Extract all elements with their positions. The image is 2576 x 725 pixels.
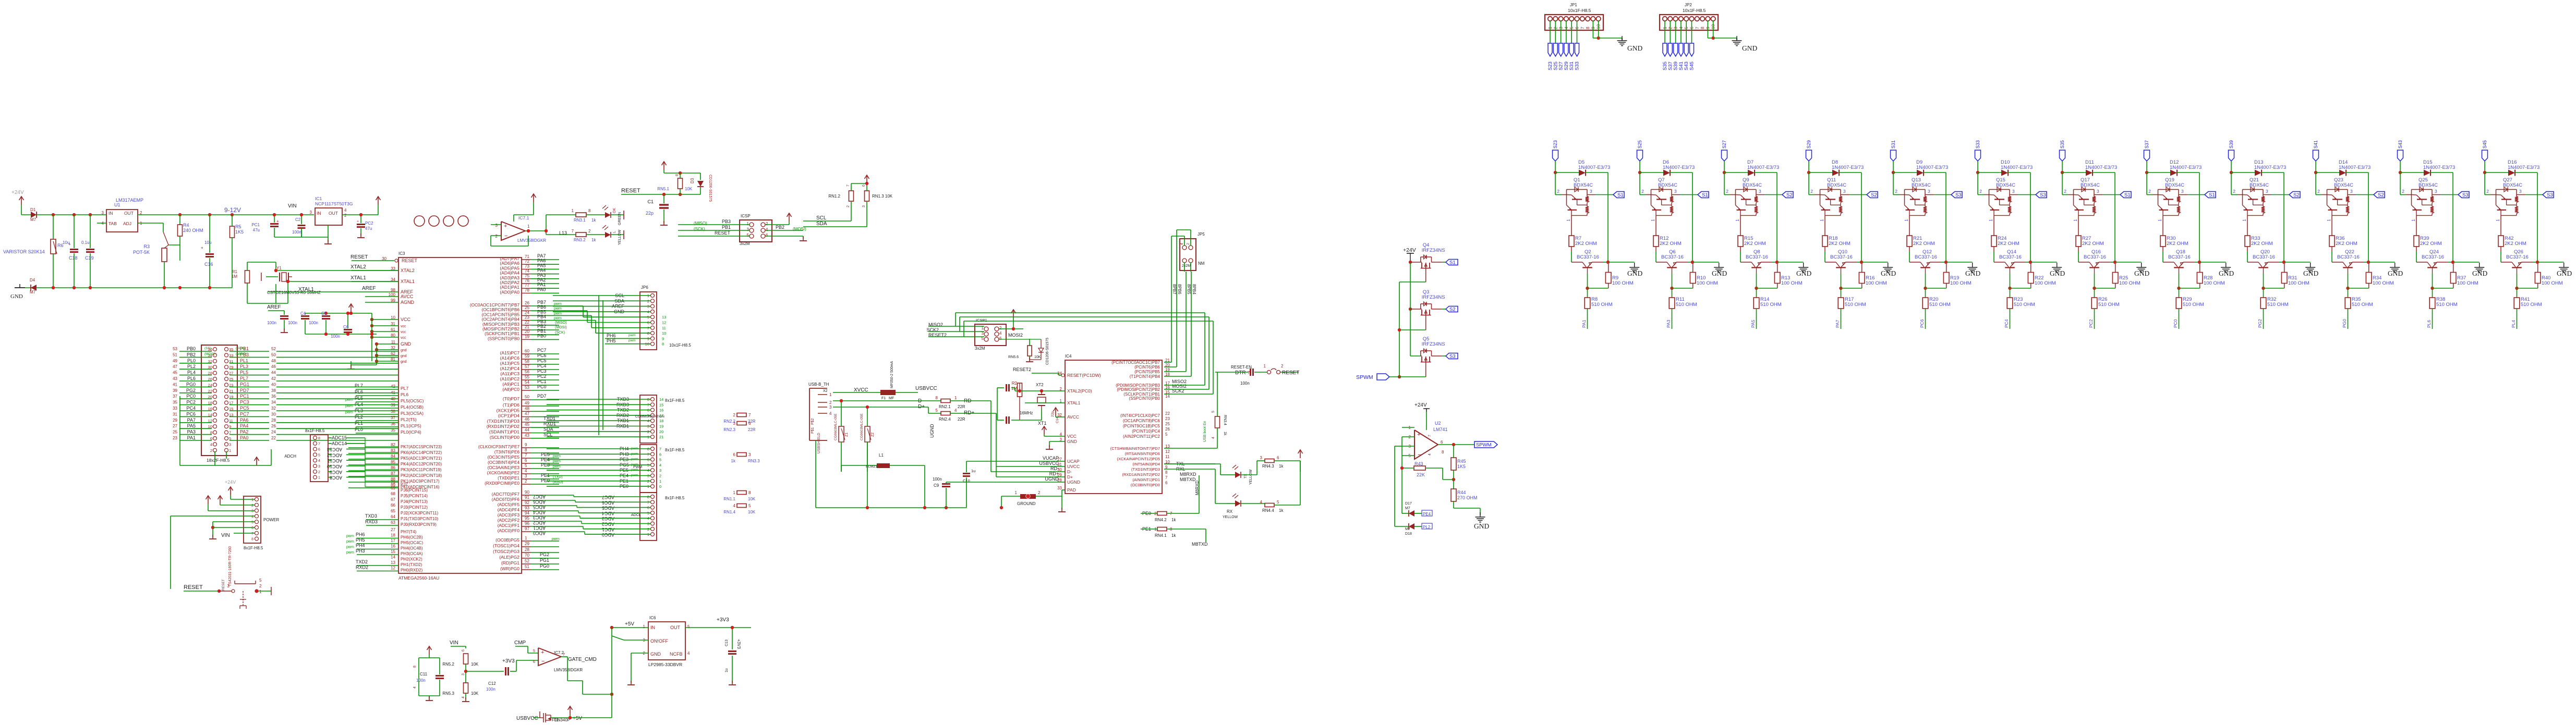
svg-text:GND: GND bbox=[1881, 269, 1896, 277]
svg-text:(RTSAIN5INT6)PD6: (RTSAIN5INT6)PD6 bbox=[1125, 451, 1160, 456]
svg-text:(A13)PC5: (A13)PC5 bbox=[500, 361, 520, 366]
svg-text:PA0: PA0 bbox=[537, 287, 546, 292]
svg-text:1N4007-E3/73: 1N4007-E3/73 bbox=[2170, 165, 2202, 170]
svg-text:YELLOW: YELLOW bbox=[618, 229, 622, 245]
svg-text:NCFB: NCFB bbox=[670, 652, 683, 657]
svg-text:S3: S3 bbox=[1955, 192, 1962, 198]
svg-text:(SCK): (SCK) bbox=[236, 347, 245, 350]
svg-text:(OC3BINT4)PE4: (OC3BINT4)PE4 bbox=[488, 460, 519, 465]
svg-text:4: 4 bbox=[766, 227, 768, 232]
svg-text:7: 7 bbox=[1695, 27, 1700, 29]
svg-text:31: 31 bbox=[391, 322, 395, 326]
svg-text:POT-5K: POT-5K bbox=[133, 250, 150, 255]
svg-text:0: 0 bbox=[659, 484, 661, 489]
svg-text:PA5: PA5 bbox=[187, 423, 196, 428]
svg-text:ADCL: ADCL bbox=[631, 513, 641, 517]
svg-text:64: 64 bbox=[391, 514, 395, 519]
svg-text:5: 5 bbox=[748, 503, 751, 508]
svg-text:D-: D- bbox=[1067, 469, 1072, 474]
svg-text:PC1: PC1 bbox=[537, 379, 547, 384]
svg-text:MF050-2 500mA: MF050-2 500mA bbox=[890, 361, 894, 388]
svg-text:7: 7 bbox=[251, 532, 253, 536]
svg-text:R44: R44 bbox=[1457, 490, 1466, 495]
svg-text:pwm: pwm bbox=[553, 460, 561, 463]
svg-text:S1: S1 bbox=[2209, 192, 2215, 198]
svg-text:2: 2 bbox=[766, 222, 768, 226]
svg-text:BDX54C: BDX54C bbox=[1912, 182, 1931, 188]
svg-text:8x1F-H8.5: 8x1F-H8.5 bbox=[665, 398, 685, 403]
svg-text:RN1.3 10K: RN1.3 10K bbox=[872, 194, 893, 199]
svg-text:8: 8 bbox=[647, 331, 649, 336]
svg-text:(SCKPCINT1)PB1: (SCKPCINT1)PB1 bbox=[485, 331, 519, 336]
svg-text:15: 15 bbox=[659, 402, 663, 407]
svg-text:94: 94 bbox=[525, 511, 529, 515]
svg-text:(A12)PC4: (A12)PC4 bbox=[500, 366, 520, 371]
svg-text:PC1: PC1 bbox=[240, 394, 249, 399]
svg-text:R2: R2 bbox=[1012, 381, 1018, 386]
svg-text:PG2: PG2 bbox=[186, 388, 196, 393]
svg-text:ICSP1: ICSP1 bbox=[976, 318, 987, 323]
svg-text:77: 77 bbox=[525, 283, 529, 288]
svg-text:S3: S3 bbox=[1449, 354, 1456, 360]
svg-text:PH0(RXD2): PH0(RXD2) bbox=[401, 568, 423, 573]
svg-text:JP1: JP1 bbox=[1570, 3, 1577, 7]
svg-text:RESET: RESET bbox=[1282, 370, 1299, 376]
svg-text:VIN: VIN bbox=[288, 203, 297, 209]
svg-text:(TXD1INT3)PD3: (TXD1INT3)PD3 bbox=[487, 419, 520, 424]
svg-text:PH6(OC2B): PH6(OC2B) bbox=[401, 535, 423, 540]
svg-text:2: 2 bbox=[1810, 189, 1813, 194]
svg-text:3: 3 bbox=[462, 673, 465, 675]
svg-text:(TOSC2)PG3: (TOSC2)PG3 bbox=[493, 549, 519, 554]
svg-text:8: 8 bbox=[936, 396, 938, 400]
svg-text:PA5: PA5 bbox=[1750, 320, 1756, 328]
svg-text:1N4007-E3/73: 1N4007-E3/73 bbox=[1747, 165, 1779, 170]
svg-text:TAB: TAB bbox=[108, 221, 117, 226]
svg-text:2K2 OHM: 2K2 OHM bbox=[1660, 241, 1682, 247]
svg-text:UCAP: UCAP bbox=[1067, 459, 1080, 464]
svg-text:20: 20 bbox=[525, 329, 529, 334]
svg-text:S1: S1 bbox=[2124, 192, 2131, 198]
svg-text:1k: 1k bbox=[591, 238, 596, 242]
svg-text:PA6: PA6 bbox=[240, 417, 248, 423]
svg-text:+: + bbox=[357, 220, 359, 224]
svg-text:6: 6 bbox=[533, 659, 535, 664]
svg-text:(AIN0INT1)PD1: (AIN0INT1)PD1 bbox=[1132, 477, 1160, 482]
svg-text:CG0603MLC-05E: CG0603MLC-05E bbox=[834, 413, 838, 440]
svg-text:CG0603MLC-05E: CG0603MLC-05E bbox=[860, 413, 864, 440]
svg-text:RESET: RESET bbox=[350, 254, 368, 260]
svg-text:ADC4: ADC4 bbox=[602, 511, 614, 516]
svg-text:8: 8 bbox=[318, 437, 320, 440]
svg-text:100 OHM: 100 OHM bbox=[2457, 280, 2478, 286]
svg-text:100n: 100n bbox=[267, 321, 276, 325]
svg-text:RN5.3: RN5.3 bbox=[442, 691, 454, 696]
svg-text:3: 3 bbox=[659, 468, 661, 473]
svg-text:PC2: PC2 bbox=[365, 221, 373, 226]
svg-text:510 OHM: 510 OHM bbox=[1845, 302, 1866, 308]
svg-text:BC337-16: BC337-16 bbox=[2506, 254, 2529, 260]
svg-text:(A10)PC2: (A10)PC2 bbox=[500, 376, 520, 382]
svg-text:1k: 1k bbox=[1171, 533, 1176, 538]
svg-text:270 OHM: 270 OHM bbox=[1457, 495, 1478, 500]
svg-text:C13: C13 bbox=[725, 640, 729, 646]
svg-text:XT1: XT1 bbox=[1038, 421, 1047, 426]
svg-text:FDN340P: FDN340P bbox=[552, 718, 570, 722]
svg-text:1k: 1k bbox=[591, 218, 596, 223]
svg-text:2: 2 bbox=[659, 474, 661, 478]
svg-text:2: 2 bbox=[318, 471, 320, 474]
svg-text:D17: D17 bbox=[1405, 502, 1412, 506]
svg-text:1: 1 bbox=[527, 224, 530, 229]
svg-text:IRFZ34NS: IRFZ34NS bbox=[1422, 341, 1445, 347]
svg-text:(PCINT5)PB5: (PCINT5)PB5 bbox=[1134, 370, 1160, 374]
svg-text:36: 36 bbox=[271, 394, 276, 399]
svg-text:P$1: P$1 bbox=[811, 427, 815, 434]
svg-text:(MISO): (MISO) bbox=[555, 321, 567, 325]
svg-text:52: 52 bbox=[271, 347, 276, 351]
svg-text:ADC7: ADC7 bbox=[533, 494, 546, 499]
svg-text:510 OHM: 510 OHM bbox=[2183, 302, 2204, 308]
svg-text:(MOSIPCINT2)PB2: (MOSIPCINT2)PB2 bbox=[482, 327, 519, 331]
svg-text:BC337-16: BC337-16 bbox=[1830, 254, 1853, 260]
svg-text:240 OHM: 240 OHM bbox=[183, 228, 203, 233]
svg-text:2: 2 bbox=[344, 213, 347, 218]
svg-text:PG0: PG0 bbox=[2342, 319, 2347, 328]
svg-text:PB1: PB1 bbox=[722, 225, 731, 230]
svg-text:1k: 1k bbox=[731, 459, 736, 463]
svg-text:15: 15 bbox=[391, 549, 395, 554]
svg-text:39: 39 bbox=[391, 403, 395, 408]
svg-text:S1: S1 bbox=[1449, 260, 1456, 266]
svg-text:PD7: PD7 bbox=[240, 388, 249, 393]
svg-text:PC4: PC4 bbox=[2004, 319, 2009, 328]
svg-text:PL5: PL5 bbox=[240, 370, 248, 375]
svg-text:10x1F-H8.5: 10x1F-H8.5 bbox=[1568, 8, 1591, 13]
svg-text:60: 60 bbox=[525, 349, 529, 353]
svg-text:2: 2 bbox=[733, 413, 736, 417]
svg-text:S33: S33 bbox=[1575, 62, 1580, 70]
svg-text:+5V: +5V bbox=[625, 621, 634, 627]
svg-text:2: 2 bbox=[2148, 189, 2151, 194]
svg-text:1: 1 bbox=[1015, 490, 1018, 495]
svg-text:ATMEGA2560-16AU: ATMEGA2560-16AU bbox=[398, 575, 439, 581]
svg-text:pwm: pwm bbox=[628, 334, 636, 337]
svg-text:D18: D18 bbox=[1405, 532, 1412, 536]
svg-text:2K2 OHM: 2K2 OHM bbox=[1744, 241, 1766, 247]
svg-text:PH6: PH6 bbox=[607, 333, 616, 338]
svg-text:3: 3 bbox=[229, 442, 231, 447]
svg-text:9-12V: 9-12V bbox=[224, 206, 241, 214]
svg-text:M7: M7 bbox=[1405, 527, 1410, 531]
svg-text:53: 53 bbox=[525, 385, 529, 390]
svg-text:100 OHM: 100 OHM bbox=[2542, 280, 2563, 286]
svg-text:C18: C18 bbox=[69, 255, 78, 261]
svg-text:5: 5 bbox=[747, 233, 749, 238]
svg-text:ADC5: ADC5 bbox=[602, 506, 614, 511]
svg-text:PJ7: PJ7 bbox=[401, 482, 408, 487]
svg-text:510 OHM: 510 OHM bbox=[2521, 302, 2542, 308]
svg-text:37: 37 bbox=[173, 394, 177, 399]
svg-text:PWM: PWM bbox=[633, 465, 642, 469]
svg-text:PH4: PH4 bbox=[356, 543, 365, 548]
svg-text:R3: R3 bbox=[143, 244, 150, 249]
svg-text:XTAL1: XTAL1 bbox=[401, 279, 415, 284]
svg-text:(ADC4)PF4: (ADC4)PF4 bbox=[498, 508, 520, 512]
svg-text:510 OHM: 510 OHM bbox=[2267, 302, 2289, 308]
svg-text:M7: M7 bbox=[30, 217, 37, 222]
svg-text:80: 80 bbox=[391, 333, 395, 338]
svg-text:BC337-16: BC337-16 bbox=[1999, 254, 2022, 260]
svg-text:BDX54C: BDX54C bbox=[1658, 182, 1677, 188]
svg-text:C5: C5 bbox=[321, 311, 327, 316]
svg-text:6: 6 bbox=[318, 448, 320, 452]
svg-text:RN5.2: RN5.2 bbox=[442, 662, 454, 667]
svg-text:100 OHM: 100 OHM bbox=[1781, 280, 1803, 286]
svg-text:PC0: PC0 bbox=[537, 384, 547, 389]
svg-text:PK3(ADC11PCINT19): PK3(ADC11PCINT19) bbox=[401, 468, 442, 472]
svg-text:PA1: PA1 bbox=[187, 435, 196, 440]
svg-text:1: 1 bbox=[659, 479, 661, 484]
svg-text:33: 33 bbox=[173, 406, 177, 411]
svg-text:VIN: VIN bbox=[450, 640, 458, 646]
svg-text:vcc: vcc bbox=[401, 330, 406, 334]
svg-text:(SS): (SS) bbox=[204, 347, 211, 350]
svg-text:2x2M: 2x2M bbox=[1182, 264, 1191, 268]
svg-text:VCC: VCC bbox=[401, 317, 411, 322]
svg-text:1M: 1M bbox=[232, 274, 237, 279]
svg-text:−: − bbox=[504, 233, 507, 239]
svg-text:100n: 100n bbox=[486, 687, 495, 692]
svg-text:RXD2: RXD2 bbox=[356, 565, 368, 570]
svg-text:97: 97 bbox=[525, 526, 529, 531]
svg-text:(MOSI): (MOSI) bbox=[793, 227, 806, 231]
svg-text:(OC3CINT5)PE5: (OC3CINT5)PE5 bbox=[488, 455, 520, 460]
svg-text:NM: NM bbox=[1198, 261, 1205, 266]
svg-text:RESET: RESET bbox=[715, 230, 731, 236]
svg-text:33: 33 bbox=[1057, 486, 1062, 490]
svg-text:4: 4 bbox=[954, 408, 957, 413]
svg-text:510 OHM: 510 OHM bbox=[1929, 302, 1951, 308]
svg-text:46: 46 bbox=[271, 364, 276, 369]
svg-text:PB0: PB0 bbox=[187, 346, 196, 351]
svg-text:28: 28 bbox=[525, 547, 529, 552]
svg-text:pwm: pwm bbox=[346, 551, 354, 555]
svg-text:BDX54C: BDX54C bbox=[2503, 182, 2522, 188]
svg-text:IN: IN bbox=[317, 211, 321, 216]
svg-text:LMV358IDGKR: LMV358IDGKR bbox=[554, 668, 583, 672]
svg-text:100 OHM: 100 OHM bbox=[1950, 280, 1972, 286]
svg-text:0.1u: 0.1u bbox=[81, 240, 90, 245]
svg-text:GND: GND bbox=[2472, 269, 2487, 277]
svg-text:1: 1 bbox=[1988, 219, 1993, 222]
svg-text:68: 68 bbox=[391, 491, 395, 496]
svg-text:BDX54C: BDX54C bbox=[1996, 182, 2015, 188]
svg-text:PC7: PC7 bbox=[240, 411, 249, 416]
svg-text:+5V: +5V bbox=[573, 716, 582, 721]
svg-text:6: 6 bbox=[999, 336, 1002, 341]
svg-text:22p: 22p bbox=[646, 211, 654, 216]
svg-text:USB boot En: USB boot En bbox=[1203, 421, 1207, 442]
svg-text:USBVCC: USBVCC bbox=[915, 386, 937, 391]
svg-text:1N4007-E3/73: 1N4007-E3/73 bbox=[1578, 165, 1610, 170]
svg-text:2: 2 bbox=[2064, 189, 2066, 194]
svg-text:8PB7: 8PB7 bbox=[1172, 284, 1177, 294]
svg-text:1: 1 bbox=[2495, 219, 2500, 222]
svg-text:Z1: Z1 bbox=[845, 433, 849, 437]
svg-text:1u: 1u bbox=[971, 469, 975, 473]
svg-text:PA0: PA0 bbox=[240, 435, 248, 440]
svg-text:(SCLINT0)PD0: (SCLINT0)PD0 bbox=[490, 435, 519, 440]
svg-text:5: 5 bbox=[647, 315, 649, 320]
svg-text:50: 50 bbox=[525, 395, 529, 399]
svg-text:4: 4 bbox=[413, 686, 417, 689]
svg-text:5: 5 bbox=[259, 578, 262, 583]
svg-text:GND: GND bbox=[2050, 269, 2065, 277]
svg-text:25: 25 bbox=[525, 305, 529, 310]
svg-text:AVCC: AVCC bbox=[1067, 414, 1079, 420]
svg-text:BC337-16: BC337-16 bbox=[1746, 254, 1768, 260]
svg-text:26: 26 bbox=[1165, 427, 1170, 432]
svg-text:C14: C14 bbox=[1056, 417, 1059, 423]
svg-text:4: 4 bbox=[659, 463, 661, 468]
svg-text:1k: 1k bbox=[1171, 518, 1176, 522]
svg-text:pwm: pwm bbox=[628, 339, 636, 342]
svg-text:1N4007-E3/73: 1N4007-E3/73 bbox=[2254, 165, 2286, 170]
svg-text:SDA: SDA bbox=[816, 221, 827, 227]
svg-text:1N4007-E3/73: 1N4007-E3/73 bbox=[1663, 165, 1695, 170]
svg-text:PL0: PL0 bbox=[187, 358, 196, 363]
svg-text:7: 7 bbox=[647, 326, 649, 330]
svg-text:1k: 1k bbox=[1279, 508, 1284, 513]
svg-text:ADC0: ADC0 bbox=[602, 532, 614, 537]
svg-text:(ADC6TD)PF6: (ADC6TD)PF6 bbox=[492, 497, 520, 502]
svg-text:(MOSI): (MOSI) bbox=[204, 352, 215, 356]
svg-text:66: 66 bbox=[391, 503, 395, 508]
svg-text:16: 16 bbox=[391, 544, 395, 549]
svg-text:(ADC5)PF5: (ADC5)PF5 bbox=[498, 502, 520, 507]
svg-text:22: 22 bbox=[271, 436, 276, 440]
svg-text:TXD2: TXD2 bbox=[356, 559, 368, 564]
svg-text:C11: C11 bbox=[420, 672, 428, 677]
svg-text:(RXD1INT2)PD2: (RXD1INT2)PD2 bbox=[487, 424, 520, 429]
svg-text:96: 96 bbox=[525, 521, 529, 526]
svg-text:+3V3: +3V3 bbox=[736, 639, 741, 649]
svg-text:ADC1: ADC1 bbox=[602, 527, 614, 532]
svg-text:45: 45 bbox=[525, 422, 529, 427]
svg-text:XT2: XT2 bbox=[1036, 383, 1044, 387]
svg-text:3: 3 bbox=[251, 510, 253, 513]
svg-text:ADC3: ADC3 bbox=[533, 515, 546, 520]
svg-text:S39: S39 bbox=[2229, 140, 2234, 149]
svg-text:ADC6: ADC6 bbox=[533, 499, 546, 505]
svg-text:8: 8 bbox=[748, 490, 751, 495]
svg-text:GND: GND bbox=[2557, 269, 2572, 277]
svg-text:(TOSC1)PG4: (TOSC1)PG4 bbox=[493, 543, 519, 548]
svg-text:(CLKOICP3INT7)PE7: (CLKOICP3INT7)PE7 bbox=[478, 445, 520, 449]
svg-text:PA3: PA3 bbox=[187, 429, 196, 435]
svg-text:PL4(OC5B): PL4(OC5B) bbox=[401, 404, 424, 410]
svg-text:13: 13 bbox=[662, 315, 666, 320]
svg-text:2: 2 bbox=[588, 229, 591, 234]
svg-text:(PCINT6)PB6: (PCINT6)PB6 bbox=[1134, 365, 1160, 370]
svg-text:8: 8 bbox=[1585, 27, 1590, 29]
svg-text:4: 4 bbox=[318, 459, 320, 463]
svg-text:C19: C19 bbox=[85, 255, 94, 261]
svg-text:32: 32 bbox=[391, 346, 395, 350]
svg-text:510 OHM: 510 OHM bbox=[2014, 302, 2035, 308]
svg-text:(OC1APCINT8)PC6: (OC1APCINT8)PC6 bbox=[1123, 419, 1160, 423]
svg-text:74: 74 bbox=[525, 269, 529, 274]
svg-text:18: 18 bbox=[659, 419, 663, 423]
svg-text:pwm: pwm bbox=[553, 465, 561, 469]
svg-text:R5: R5 bbox=[235, 224, 241, 229]
svg-text:3: 3 bbox=[733, 421, 736, 426]
svg-text:M7: M7 bbox=[1405, 507, 1410, 510]
svg-text:(OC3AAIN1)PE3: (OC3AAIN1)PE3 bbox=[488, 465, 520, 470]
svg-text:8: 8 bbox=[413, 666, 417, 668]
svg-text:1: 1 bbox=[1650, 219, 1655, 222]
svg-text:2: 2 bbox=[1726, 189, 1728, 194]
svg-text:RX: RX bbox=[1227, 509, 1233, 514]
svg-text:PC2: PC2 bbox=[537, 374, 547, 379]
svg-text:93: 93 bbox=[525, 506, 529, 510]
svg-text:PL0(ICP4): PL0(ICP4) bbox=[401, 429, 421, 435]
svg-text:pwm: pwm bbox=[554, 302, 562, 306]
svg-text:D+: D+ bbox=[1067, 474, 1073, 480]
svg-text:7: 7 bbox=[1580, 27, 1585, 29]
svg-text:C2: C2 bbox=[295, 217, 301, 222]
svg-text:PH3: PH3 bbox=[356, 548, 365, 554]
svg-text:1: 1 bbox=[229, 448, 231, 453]
svg-text:5: 5 bbox=[318, 453, 320, 457]
svg-text:S3: S3 bbox=[2547, 192, 2553, 198]
svg-text:gnd: gnd bbox=[401, 354, 407, 358]
svg-text:7: 7 bbox=[1428, 435, 1432, 437]
svg-text:10K: 10K bbox=[471, 662, 479, 667]
svg-text:3: 3 bbox=[1843, 189, 1846, 194]
svg-text:ADC8: ADC8 bbox=[330, 475, 342, 481]
svg-text:3: 3 bbox=[748, 452, 751, 457]
svg-text:U1: U1 bbox=[114, 202, 120, 207]
svg-text:PL7: PL7 bbox=[355, 383, 363, 388]
svg-text:X2: X2 bbox=[823, 389, 828, 393]
svg-text:AREF: AREF bbox=[267, 304, 281, 310]
svg-text:1M: 1M bbox=[1011, 386, 1017, 391]
svg-text:ADC0: ADC0 bbox=[533, 531, 546, 536]
svg-text:(T0)PD7: (T0)PD7 bbox=[503, 396, 519, 401]
svg-text:PJ2(XCK3PCINT11): PJ2(XCK3PCINT11) bbox=[401, 511, 439, 515]
svg-text:(OC0AOC1CPCINT7)PB7: (OC0AOC1CPCINT7)PB7 bbox=[470, 303, 520, 308]
svg-text:+24V: +24V bbox=[1414, 402, 1427, 408]
svg-text:IC6: IC6 bbox=[649, 616, 656, 620]
svg-text:63: 63 bbox=[391, 520, 395, 525]
svg-text:3: 3 bbox=[2519, 189, 2522, 194]
svg-text:1N4007-E3/73: 1N4007-E3/73 bbox=[2423, 165, 2455, 170]
svg-text:PC1: PC1 bbox=[251, 223, 260, 227]
svg-text:47: 47 bbox=[525, 412, 529, 416]
svg-text:PH5: PH5 bbox=[356, 537, 365, 543]
svg-text:(XCK1)PD5: (XCK1)PD5 bbox=[497, 408, 520, 413]
svg-text:8x1F-H8.5: 8x1F-H8.5 bbox=[305, 428, 325, 433]
svg-text:BDX54C: BDX54C bbox=[1574, 182, 1593, 188]
svg-text:IC3: IC3 bbox=[398, 251, 405, 256]
svg-text:6: 6 bbox=[862, 185, 866, 187]
svg-text:100 OHM: 100 OHM bbox=[2288, 280, 2309, 286]
svg-text:2: 2 bbox=[495, 234, 498, 239]
svg-text:7: 7 bbox=[1165, 475, 1168, 480]
svg-text:(SDAINT1)PD1: (SDAINT1)PD1 bbox=[489, 429, 519, 435]
